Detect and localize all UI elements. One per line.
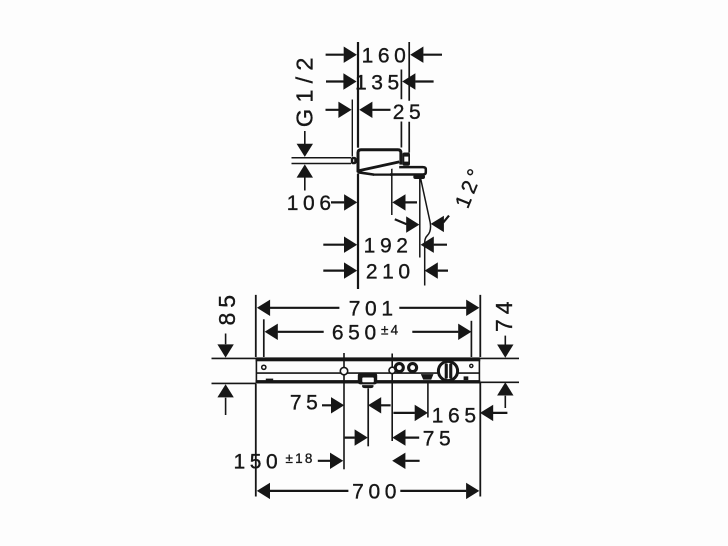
inlet tab on wall	[352, 158, 355, 163]
svg-text:150: 150	[234, 450, 283, 473]
dimension 150 +-18	[318, 460, 420, 462]
rear connection tab	[402, 153, 410, 166]
mixer body bottom edge wedge	[357, 172, 374, 174]
dimension 135	[326, 80, 434, 82]
centerline hole 2	[391, 354, 393, 442]
svg-text:G1/2: G1/2	[292, 51, 318, 127]
dimension 106	[331, 201, 417, 203]
svg-text:75: 75	[290, 392, 323, 415]
guide line left bottom	[212, 382, 257, 384]
svg-text:106: 106	[287, 192, 336, 215]
svg-text:85: 85	[214, 290, 240, 326]
step right	[464, 376, 469, 380]
guide line left top	[212, 357, 257, 359]
svg-text:135: 135	[355, 71, 404, 94]
85 pointer lines and arrows	[225, 334, 227, 416]
dimension 165	[393, 412, 507, 414]
shower holder outer	[358, 373, 377, 385]
spout bar	[390, 167, 426, 174]
dimension 700	[270, 490, 467, 492]
bar outline	[256, 358, 479, 382]
spout bottom line continuation	[373, 174, 392, 176]
mixer body (side view)	[357, 148, 403, 174]
svg-text:±18: ±18	[286, 451, 315, 466]
extension line 160	[408, 42, 410, 153]
svg-text:75: 75	[423, 427, 456, 450]
center mark circle 2	[389, 367, 395, 373]
clip bump left	[266, 379, 273, 382]
extension line 701/700 right	[479, 295, 481, 497]
dimension 650 +-4	[278, 331, 459, 333]
extension line 135	[400, 70, 402, 148]
mixer body diagonal top of spout wedge	[358, 162, 399, 171]
dimension 75 second	[345, 437, 420, 439]
dimension 25	[326, 109, 391, 111]
dimension 160	[326, 54, 442, 56]
knob grip bars	[445, 363, 448, 379]
svg-text:701: 701	[349, 298, 398, 321]
extension line 650 right	[470, 321, 472, 357]
spout axis line	[391, 168, 393, 216]
shower holder window	[362, 378, 374, 383]
svg-text:±4: ±4	[381, 323, 400, 338]
extension line 701/700 left	[255, 295, 257, 497]
bar bottom band	[256, 380, 481, 383]
centerline hole 1	[343, 353, 345, 469]
spout outlet nub	[413, 175, 425, 179]
svg-text:160: 160	[362, 45, 411, 68]
dimension 75 first	[322, 404, 391, 406]
centerline outlet	[427, 382, 429, 417]
guide line right top	[480, 357, 519, 359]
svg-text:192: 192	[364, 235, 413, 258]
plaster line	[351, 100, 353, 157]
guide line right bottom	[480, 381, 519, 383]
svg-text:165: 165	[432, 404, 481, 427]
dimension 210	[323, 270, 448, 272]
supply pipe lines G1/2	[292, 158, 352, 164]
thermostat knob	[438, 361, 457, 380]
svg-text:700: 700	[352, 481, 401, 504]
dimension 192	[323, 244, 447, 246]
G1/2 pointer line and arrows	[304, 131, 306, 191]
shower holder lower tab	[362, 385, 373, 388]
extension line 650 left	[263, 319, 265, 357]
svg-text:74: 74	[491, 296, 517, 332]
center mark circle 1	[340, 367, 347, 374]
angle 12 deg annotation	[395, 216, 449, 225]
bar inner line	[256, 372, 480, 374]
dimension 701	[270, 307, 467, 309]
bar top band	[256, 358, 481, 362]
svg-text:25: 25	[393, 101, 426, 124]
stream tilted line 12 deg	[420, 178, 430, 286]
small knob 2	[409, 364, 417, 372]
small knob 1	[395, 364, 403, 372]
screw hole right	[470, 364, 473, 367]
svg-text:210: 210	[366, 260, 415, 283]
wall line (top drawing, vertical mounting wall)	[357, 42, 359, 289]
centerline holder	[367, 388, 369, 446]
screw hole left	[262, 365, 266, 369]
outlet spout below bar	[421, 374, 434, 380]
stream vertical line	[419, 178, 421, 258]
74 pointer lines and arrows	[504, 336, 506, 408]
svg-text:650: 650	[332, 321, 381, 344]
